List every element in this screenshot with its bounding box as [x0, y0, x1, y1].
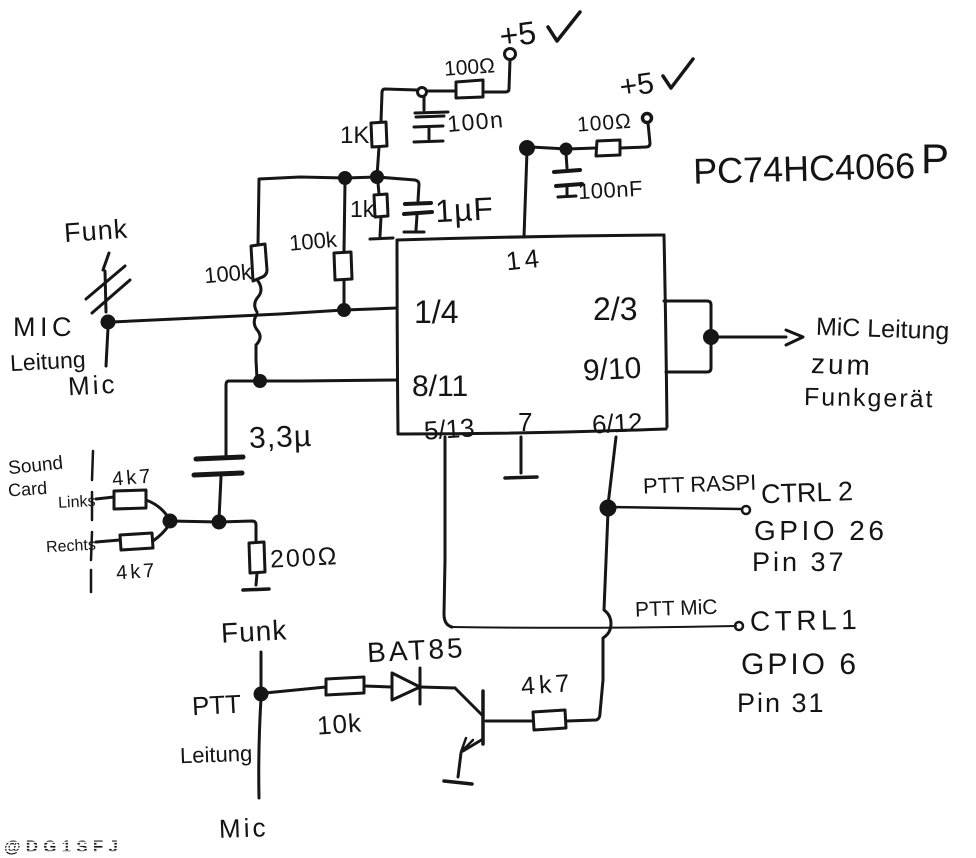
wire +5V to resistor R1 — [484, 60, 510, 92]
label 4k7 Rechts — [115, 560, 158, 585]
svg-text:7: 7 — [518, 407, 532, 437]
resistor R7 4k7 Links — [96, 490, 168, 517]
label GPIO 26 — [754, 515, 887, 546]
resistor R4 100k middle — [334, 183, 352, 308]
junction pin14 node — [521, 142, 534, 155]
wire mix node to 200Ω corner — [170, 521, 256, 541]
svg-text:@DG1SFJ: @DG1SFJ — [4, 837, 123, 856]
junction C3 node — [561, 144, 571, 154]
label Mic left — [67, 369, 118, 402]
via terminal circle — [418, 88, 427, 97]
wire diode to transistor — [420, 687, 455, 688]
svg-text:Funk: Funk — [63, 214, 129, 248]
svg-text:+5: +5 — [497, 14, 538, 54]
svg-text:PTT: PTT — [191, 689, 242, 722]
label PTT MiC — [635, 596, 718, 622]
svg-text:Links: Links — [58, 493, 96, 512]
svg-text:8/11: 8/11 — [412, 370, 468, 403]
label pin 9/10 — [582, 352, 642, 388]
wire PTT RASPI to CTRL2 — [608, 507, 741, 509]
svg-text:Leitung: Leitung — [180, 741, 253, 769]
capacitor C4 3,3µ — [194, 457, 243, 519]
wire pin 9/10 to output node — [666, 340, 711, 372]
label Sound Card — [7, 453, 64, 501]
label 3,3µ — [248, 420, 312, 455]
node C4 junction — [213, 516, 225, 528]
wire 10k to diode — [364, 686, 392, 687]
label Mic bottom — [218, 812, 268, 844]
transistor Q1 — [455, 688, 483, 752]
label 100k left — [203, 259, 254, 288]
resistor R6 100Ω right — [596, 140, 620, 156]
label CTRL 2 — [761, 476, 854, 509]
svg-text:Pin 31: Pin 31 — [737, 688, 826, 718]
label 100Ω — [443, 54, 495, 80]
pin 14 lead — [524, 151, 527, 237]
resistor R5 100k left — [251, 180, 267, 379]
wire R1 to via node — [428, 90, 456, 93]
svg-text:Pin 37: Pin 37 — [752, 547, 847, 577]
svg-text:BAT85: BAT85 — [366, 632, 466, 668]
arrow to Funkgerät — [717, 330, 803, 345]
svg-text:4k7: 4k7 — [111, 465, 154, 491]
wire pin 2/3 to output node — [664, 301, 711, 337]
wire top rail — [259, 177, 419, 201]
+5V right V checkmark — [663, 59, 693, 88]
resistor R8 4k7 Rechts — [96, 525, 169, 550]
node A junction — [372, 172, 383, 183]
power terminal +5V top — [505, 49, 516, 60]
svg-text:P: P — [921, 135, 949, 182]
label 4k7 Links — [111, 465, 154, 491]
svg-text:Mic: Mic — [218, 812, 268, 844]
label 10k — [316, 708, 363, 741]
svg-text:PC74HC4066: PC74HC4066 — [693, 145, 916, 192]
label 100n — [446, 106, 505, 137]
label MIC — [13, 312, 76, 342]
junction 8/11 node — [255, 376, 266, 387]
label +5V top — [497, 14, 538, 54]
svg-text:zum: zum — [810, 348, 873, 381]
pin 5/13 lead — [444, 437, 452, 627]
capacitor C3 100nF — [554, 153, 582, 197]
label MIC Leitung right — [815, 313, 949, 346]
capacitor C2 1µF — [404, 203, 432, 232]
label +5V right — [617, 67, 655, 104]
svg-text:GPIO 6: GPIO 6 — [741, 648, 859, 681]
svg-text:9/10: 9/10 — [582, 352, 642, 388]
watermark @DG1SFJ — [3, 837, 123, 856]
stub below MIC node — [106, 328, 108, 366]
svg-text:GPIO 26: GPIO 26 — [754, 515, 887, 546]
label Pin 31 — [737, 688, 826, 718]
wire MIC line to pin 1/4 — [112, 308, 397, 322]
wire PTT node to R11 — [265, 687, 326, 693]
svg-text:PTT RASPI: PTT RASPI — [643, 470, 757, 499]
label Funk bottom — [220, 614, 288, 648]
svg-text:200Ω: 200Ω — [269, 542, 339, 574]
capacitor C1 100n — [414, 97, 448, 142]
svg-text:Mic: Mic — [67, 369, 118, 402]
svg-text:Card: Card — [7, 478, 47, 501]
node PTT RASPI junction — [601, 501, 615, 515]
svg-text:100Ω: 100Ω — [443, 54, 495, 80]
svg-text:+5: +5 — [617, 67, 655, 104]
dashed connector line — [91, 451, 93, 592]
node sound mix junction — [164, 515, 176, 527]
label 1K — [340, 122, 369, 149]
resistor R11 10k — [326, 677, 364, 695]
wire R2 to node A — [377, 147, 379, 176]
wire 8/11 rail — [226, 380, 397, 455]
label pin 5/13 — [423, 412, 476, 445]
label 100nF — [577, 176, 643, 204]
label PC74HC4066P — [693, 135, 949, 192]
wire PTT MIC line — [452, 626, 736, 628]
resistor R9 200Ω — [249, 542, 265, 585]
label PTT — [191, 689, 242, 722]
power terminal +5V right — [643, 114, 652, 123]
label PTT RASPI — [643, 470, 757, 499]
svg-text:1K: 1K — [340, 122, 369, 149]
ground 200Ω — [243, 589, 269, 590]
label Pin 37 — [752, 547, 847, 577]
label Rechts — [46, 537, 97, 557]
svg-text:CTRL1: CTRL1 — [750, 604, 862, 637]
resistor R10 4k7 — [533, 710, 566, 730]
svg-text:1/4: 1/4 — [414, 294, 458, 330]
svg-text:2/3: 2/3 — [593, 291, 637, 327]
label pin 8/11 — [412, 370, 468, 403]
svg-text:4k7: 4k7 — [520, 669, 574, 701]
wire Funk stub to PTT node — [260, 652, 263, 694]
resistor R2 1K — [371, 122, 387, 147]
diode D1 BAT85 — [392, 668, 420, 704]
label Funk top left — [63, 214, 129, 248]
label 1µF — [434, 190, 495, 229]
label pin 1/4 — [414, 294, 458, 330]
wire R6 to pin14 node — [531, 147, 596, 149]
svg-text:5/13: 5/13 — [423, 412, 476, 445]
node output junction — [705, 331, 718, 344]
label Links — [58, 493, 96, 512]
svg-text:100nF: 100nF — [577, 176, 643, 204]
wire PTT stub down to Mic — [259, 698, 261, 798]
pin 6/12 lead — [608, 437, 616, 505]
node junction mid rail — [340, 173, 351, 184]
IC U1 PC74HC4066P — [397, 235, 667, 434]
label pin 14 — [505, 243, 545, 277]
svg-text:100k: 100k — [288, 227, 339, 256]
ground emitter — [444, 753, 472, 784]
wire +5V right down to R6 — [621, 123, 650, 148]
label Leitung left — [9, 346, 86, 376]
terminal CTRL2 circle — [742, 506, 750, 514]
label 100Ω right — [576, 110, 632, 137]
svg-text:6/12: 6/12 — [591, 407, 643, 440]
label Leitung bottom — [180, 741, 253, 769]
svg-text:Rechts: Rechts — [46, 537, 97, 557]
label 1k — [350, 196, 375, 222]
label zum — [810, 348, 873, 381]
label Funkgerät — [804, 383, 935, 413]
resistor R1 100Ω — [456, 80, 483, 98]
antenna break symbol — [86, 253, 130, 313]
svg-text:MiC Leitung: MiC Leitung — [815, 313, 949, 346]
svg-text:CTRL 2: CTRL 2 — [761, 476, 854, 509]
svg-text:Sound: Sound — [7, 453, 64, 480]
label CTRL1 — [750, 604, 862, 637]
terminal CTRL1 circle — [735, 622, 743, 630]
junction R4 on MIC line — [339, 305, 350, 316]
svg-text:100n: 100n — [446, 106, 505, 137]
label pin 2/3 — [593, 291, 637, 327]
label GPIO 6 — [741, 648, 859, 681]
svg-text:4k7: 4k7 — [115, 560, 158, 585]
node MIC junction — [102, 316, 114, 328]
svg-text:PTT MiC: PTT MiC — [635, 596, 718, 622]
svg-text:14: 14 — [505, 243, 545, 277]
+5V top V checkmark — [548, 12, 580, 41]
label BAT85 — [366, 632, 466, 668]
svg-text:3,3µ: 3,3µ — [248, 420, 312, 455]
svg-text:10k: 10k — [316, 708, 363, 741]
wire R10 to transistor — [486, 720, 533, 723]
label pin 6/12 — [591, 407, 643, 440]
svg-text:1k: 1k — [350, 196, 375, 222]
label 100k middle — [288, 227, 339, 256]
svg-text:MIC: MIC — [13, 312, 76, 342]
svg-text:Funk: Funk — [220, 614, 288, 648]
label 4k7 right — [520, 669, 574, 701]
resistor R3 1k — [370, 183, 393, 239]
svg-text:Funkgerät: Funkgerät — [804, 383, 935, 413]
svg-text:100k: 100k — [203, 259, 254, 288]
wire via to corner down to R2 — [381, 89, 417, 121]
label pin 7 — [518, 407, 532, 437]
svg-text:100Ω: 100Ω — [576, 110, 632, 137]
svg-text:1µF: 1µF — [434, 190, 495, 229]
node PTT junction — [255, 688, 267, 700]
wire 6/12 down with hop — [567, 512, 611, 721]
pin 7 lead and ground — [505, 437, 537, 478]
label 200Ω — [269, 542, 339, 574]
